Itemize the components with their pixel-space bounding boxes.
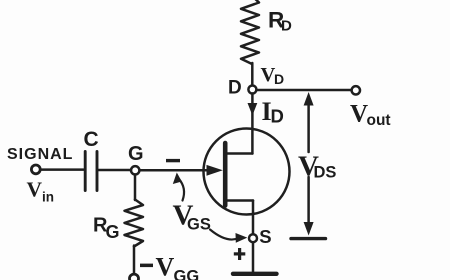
arrowhead VDS down <box>304 222 314 236</box>
arrowhead VDS up <box>304 92 314 106</box>
arrow VDS lower segment <box>307 177 310 224</box>
terminal -VGG circle <box>130 274 139 280</box>
svg-text:G: G <box>106 222 120 242</box>
node G circle <box>131 166 139 174</box>
wire signal terminal to capacitor <box>41 168 84 171</box>
minus sign of -VGG <box>140 264 153 268</box>
wire resistor RD bottom to node D <box>251 63 254 86</box>
transistor Q1 source horizontal lead <box>226 199 253 202</box>
svg-text:V: V <box>156 253 175 280</box>
arrow VDS upper segment <box>307 103 310 152</box>
resistor R_D <box>241 0 259 64</box>
minus sign at gate <box>166 159 180 162</box>
capacitor C left plate <box>84 152 87 191</box>
arrowhead ID current down <box>248 103 258 116</box>
wire node D to Vout terminal <box>257 89 352 92</box>
svg-text:V: V <box>350 101 368 128</box>
arrowhead VGS-to-source tip <box>236 233 248 243</box>
svg-text:out: out <box>367 112 391 129</box>
svg-text:DS: DS <box>314 164 337 182</box>
svg-text:D: D <box>228 78 242 99</box>
arrowhead VGS-to-gate tip <box>173 173 182 185</box>
ground <box>233 272 277 276</box>
svg-text:V: V <box>27 178 43 202</box>
capacitor C right plate <box>96 152 99 191</box>
terminal SIGNAL input circle <box>31 165 40 174</box>
resistor R_G <box>125 200 144 247</box>
op-amp: none; transistor Q1 JFET circle <box>204 129 290 215</box>
wire FET source down to node S <box>252 201 255 235</box>
wire resistor RG bottom to -VGG terminal <box>133 246 136 275</box>
plus sign at source <box>234 252 246 255</box>
node D circle <box>248 86 256 94</box>
svg-text:D: D <box>271 106 284 127</box>
arrow VDS bottom reference bar <box>291 237 326 240</box>
arrowhead gate of Q1 <box>207 165 223 176</box>
transistor Q1 drain horizontal lead <box>226 152 252 155</box>
arrow VGS to source curved <box>210 230 239 240</box>
wire capacitor to node G <box>99 169 132 172</box>
svg-text:GS: GS <box>187 216 211 234</box>
wire node D down to FET drain <box>251 94 254 154</box>
svg-text:in: in <box>42 189 54 204</box>
svg-text:D: D <box>274 71 284 87</box>
arrow VGS to gate curved <box>179 179 185 201</box>
terminal Vout circle <box>352 86 360 94</box>
wire gate from node G to FET <box>140 169 213 172</box>
wire node G down to resistor RG <box>134 175 137 201</box>
svg-text:G: G <box>128 143 144 165</box>
svg-text:SIGNAL: SIGNAL <box>7 146 73 163</box>
svg-text:D: D <box>281 18 292 35</box>
wire node S to ground <box>252 242 255 272</box>
svg-text:S: S <box>259 226 271 247</box>
svg-text:C: C <box>84 128 99 151</box>
transistor Q1 channel bar <box>223 143 228 206</box>
node S circle <box>249 234 257 242</box>
svg-text:GG: GG <box>174 268 200 280</box>
